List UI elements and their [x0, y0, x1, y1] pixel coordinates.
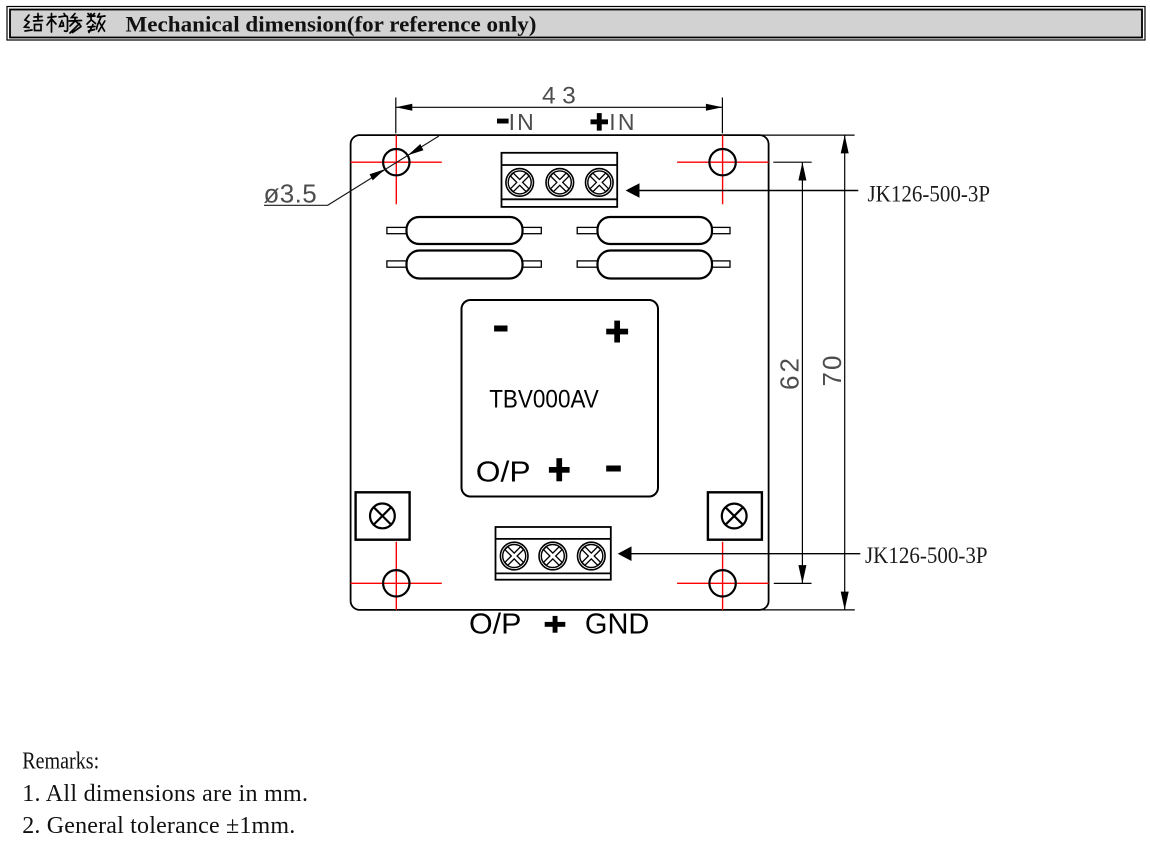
bottom label plus [545, 616, 566, 633]
center box plus bottom [549, 458, 570, 481]
leader arrow to top terminal block [626, 183, 859, 198]
screw 1 bottom block [500, 542, 528, 570]
title latin text [126, 12, 537, 37]
bottom label O/P [469, 609, 521, 641]
mounting hole top-left [351, 135, 442, 204]
svg-text:O/P: O/P [476, 456, 531, 488]
terminal block top [502, 153, 618, 207]
remarks heading [22, 749, 99, 775]
inductor body row1 right [577, 217, 730, 244]
mounting hole bottom-left [351, 542, 442, 610]
inductor body row2 right [577, 251, 730, 279]
bottom label GND [585, 609, 650, 641]
screw square left [356, 492, 410, 539]
svg-text:ø3.5: ø3.5 [264, 178, 318, 208]
svg-text:Mechanical dimension(for refer: Mechanical dimension(for reference only) [126, 12, 537, 37]
dimension 62 text [775, 355, 805, 390]
remarks line 2 [22, 813, 295, 839]
extension line module bottom edge [758, 609, 855, 611]
center box minus top-left [494, 326, 507, 332]
dimension 62 line [798, 162, 806, 583]
svg-text:70: 70 [817, 354, 847, 387]
参 [69, 14, 82, 34]
title block inner panel [10, 10, 1142, 38]
remarks line 1 [22, 781, 308, 807]
screw 2 top block [546, 169, 574, 197]
构 [47, 14, 68, 33]
center box plus top-right [606, 321, 628, 343]
center label box [462, 300, 659, 497]
inductor body row2 left [387, 251, 541, 279]
center box O/P text [476, 456, 531, 488]
svg-text:1. All dimensions are in mm.: 1. All dimensions are in mm. [22, 781, 308, 807]
center box minus bottom [606, 466, 621, 472]
svg-text:62: 62 [775, 355, 805, 390]
svg-text:Remarks:: Remarks: [22, 749, 99, 775]
svg-text:2. General tolerance ±1mm.: 2. General tolerance ±1mm. [22, 813, 295, 839]
dimension 43 extension line right [721, 98, 723, 134]
结 [25, 14, 43, 32]
center box model text [489, 386, 599, 414]
svg-text:JK126-500-3P: JK126-500-3P [865, 543, 988, 568]
extension line module top edge [758, 134, 855, 136]
svg-text:43: 43 [542, 82, 582, 109]
diameter leader line [264, 136, 439, 205]
svg-text:JK126-500-3P: JK126-500-3P [868, 182, 991, 207]
svg-text:GND: GND [585, 609, 650, 641]
leader arrow to bottom terminal block [618, 546, 861, 561]
svg-text:TBV000AV: TBV000AV [489, 386, 599, 414]
screw 3 bottom block [578, 542, 606, 570]
screw 3 top block [586, 169, 614, 197]
screw square right [708, 492, 762, 539]
mounting hole bottom-right [677, 542, 769, 610]
mounting hole top-right [677, 135, 769, 204]
terminal block bottom [496, 527, 611, 580]
dimension 43 extension line left [395, 98, 397, 134]
dimension 43 line [396, 104, 723, 111]
screw 2 bottom block [539, 542, 567, 570]
dimension 70 text [817, 354, 847, 387]
svg-text:IN: IN [509, 109, 536, 135]
label JK126-500-3P top [868, 182, 991, 207]
extension line hole-center right top [773, 161, 811, 163]
inductor body row1 left [387, 217, 541, 244]
label -IN [497, 109, 536, 135]
数 [87, 14, 105, 33]
extension line hole-center right bottom [774, 582, 812, 584]
title block outer border [7, 7, 1145, 41]
label +IN [591, 109, 637, 135]
title CJK text 结构参数 (drawn strokes) [25, 14, 106, 34]
svg-text:O/P: O/P [469, 609, 521, 641]
screw 1 top block [506, 169, 534, 197]
svg-text:IN: IN [609, 109, 636, 135]
dimension 43 text [542, 82, 582, 109]
module body outline [351, 135, 769, 610]
diameter text 3.5 [264, 178, 318, 208]
dimension 70 line [841, 135, 849, 610]
label JK126-500-3P bottom [865, 543, 988, 568]
